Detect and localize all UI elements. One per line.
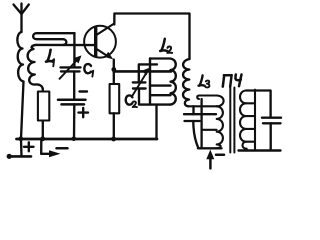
- capacitor C1 (variable): [60, 33, 82, 79]
- inductor L2 (collector coil): [150, 59, 176, 105]
- node A (junction dot, antenna lead / rail): [18, 136, 23, 141]
- label C1: [84, 64, 93, 77]
- label - (by supply arrow): [216, 154, 224, 157]
- wire collector riser + top rail: [114, 14, 189, 60]
- IF transformer secondary winding W2: [240, 90, 255, 151]
- node (C3 / rail junction dot): [72, 137, 77, 142]
- capacitor C2 (variable): [133, 68, 170, 105]
- capacitor C3 (bypass, polarity marked): [58, 100, 86, 139]
- node (R2 / rail junction dot): [111, 137, 116, 142]
- wire primary bottom: [198, 147, 222, 149]
- node (emitter junction dot): [111, 67, 116, 72]
- capacitor C5 (secondary tuning): [262, 118, 281, 151]
- wire emitter to L2: [114, 70, 171, 73]
- transistor Q1: [84, 24, 116, 60]
- wire L2/C2 bottom riser to rail: [155, 105, 157, 139]
- IF transformer primary winding W1: [188, 96, 223, 149]
- wire antenna coil to ground rail: [21, 82, 24, 139]
- supply arrow (to minus): [206, 150, 214, 169]
- label C2: [126, 95, 137, 107]
- label + (C3 bottom): [79, 108, 89, 117]
- antenna coil: [17, 32, 23, 82]
- label L2: [160, 39, 172, 53]
- label - (minus by arrow): [57, 147, 68, 150]
- label L3: [199, 75, 210, 87]
- resistor R2: [110, 84, 120, 139]
- antenna: [14, 4, 29, 33]
- inductor L1 (tank coil): [33, 33, 74, 45]
- label - (C3 top): [80, 90, 88, 92]
- inductor L3 (coupling coil): [183, 59, 189, 106]
- label +: [24, 142, 34, 151]
- wire emitter down: [113, 60, 115, 85]
- resistor R1: [38, 89, 49, 139]
- wire C1 to C3: [73, 71, 75, 99]
- label PCH (IF output): [223, 75, 242, 87]
- wire L1 base lead: [36, 44, 95, 47]
- battery plus terminal: [7, 139, 31, 159]
- battery minus terminal (arrow): [41, 139, 60, 157]
- core (transformer): [230, 88, 234, 153]
- node (R1 / rail junction dot): [40, 136, 45, 141]
- wire secondary bottom: [239, 149, 281, 151]
- ground rail (bottom bus): [17, 138, 158, 141]
- label L1: [46, 50, 54, 67]
- capacitor C4 (primary tuning): [184, 106, 216, 148]
- wire C2 top connect: [139, 64, 157, 81]
- wire secondary top to C5: [246, 91, 271, 118]
